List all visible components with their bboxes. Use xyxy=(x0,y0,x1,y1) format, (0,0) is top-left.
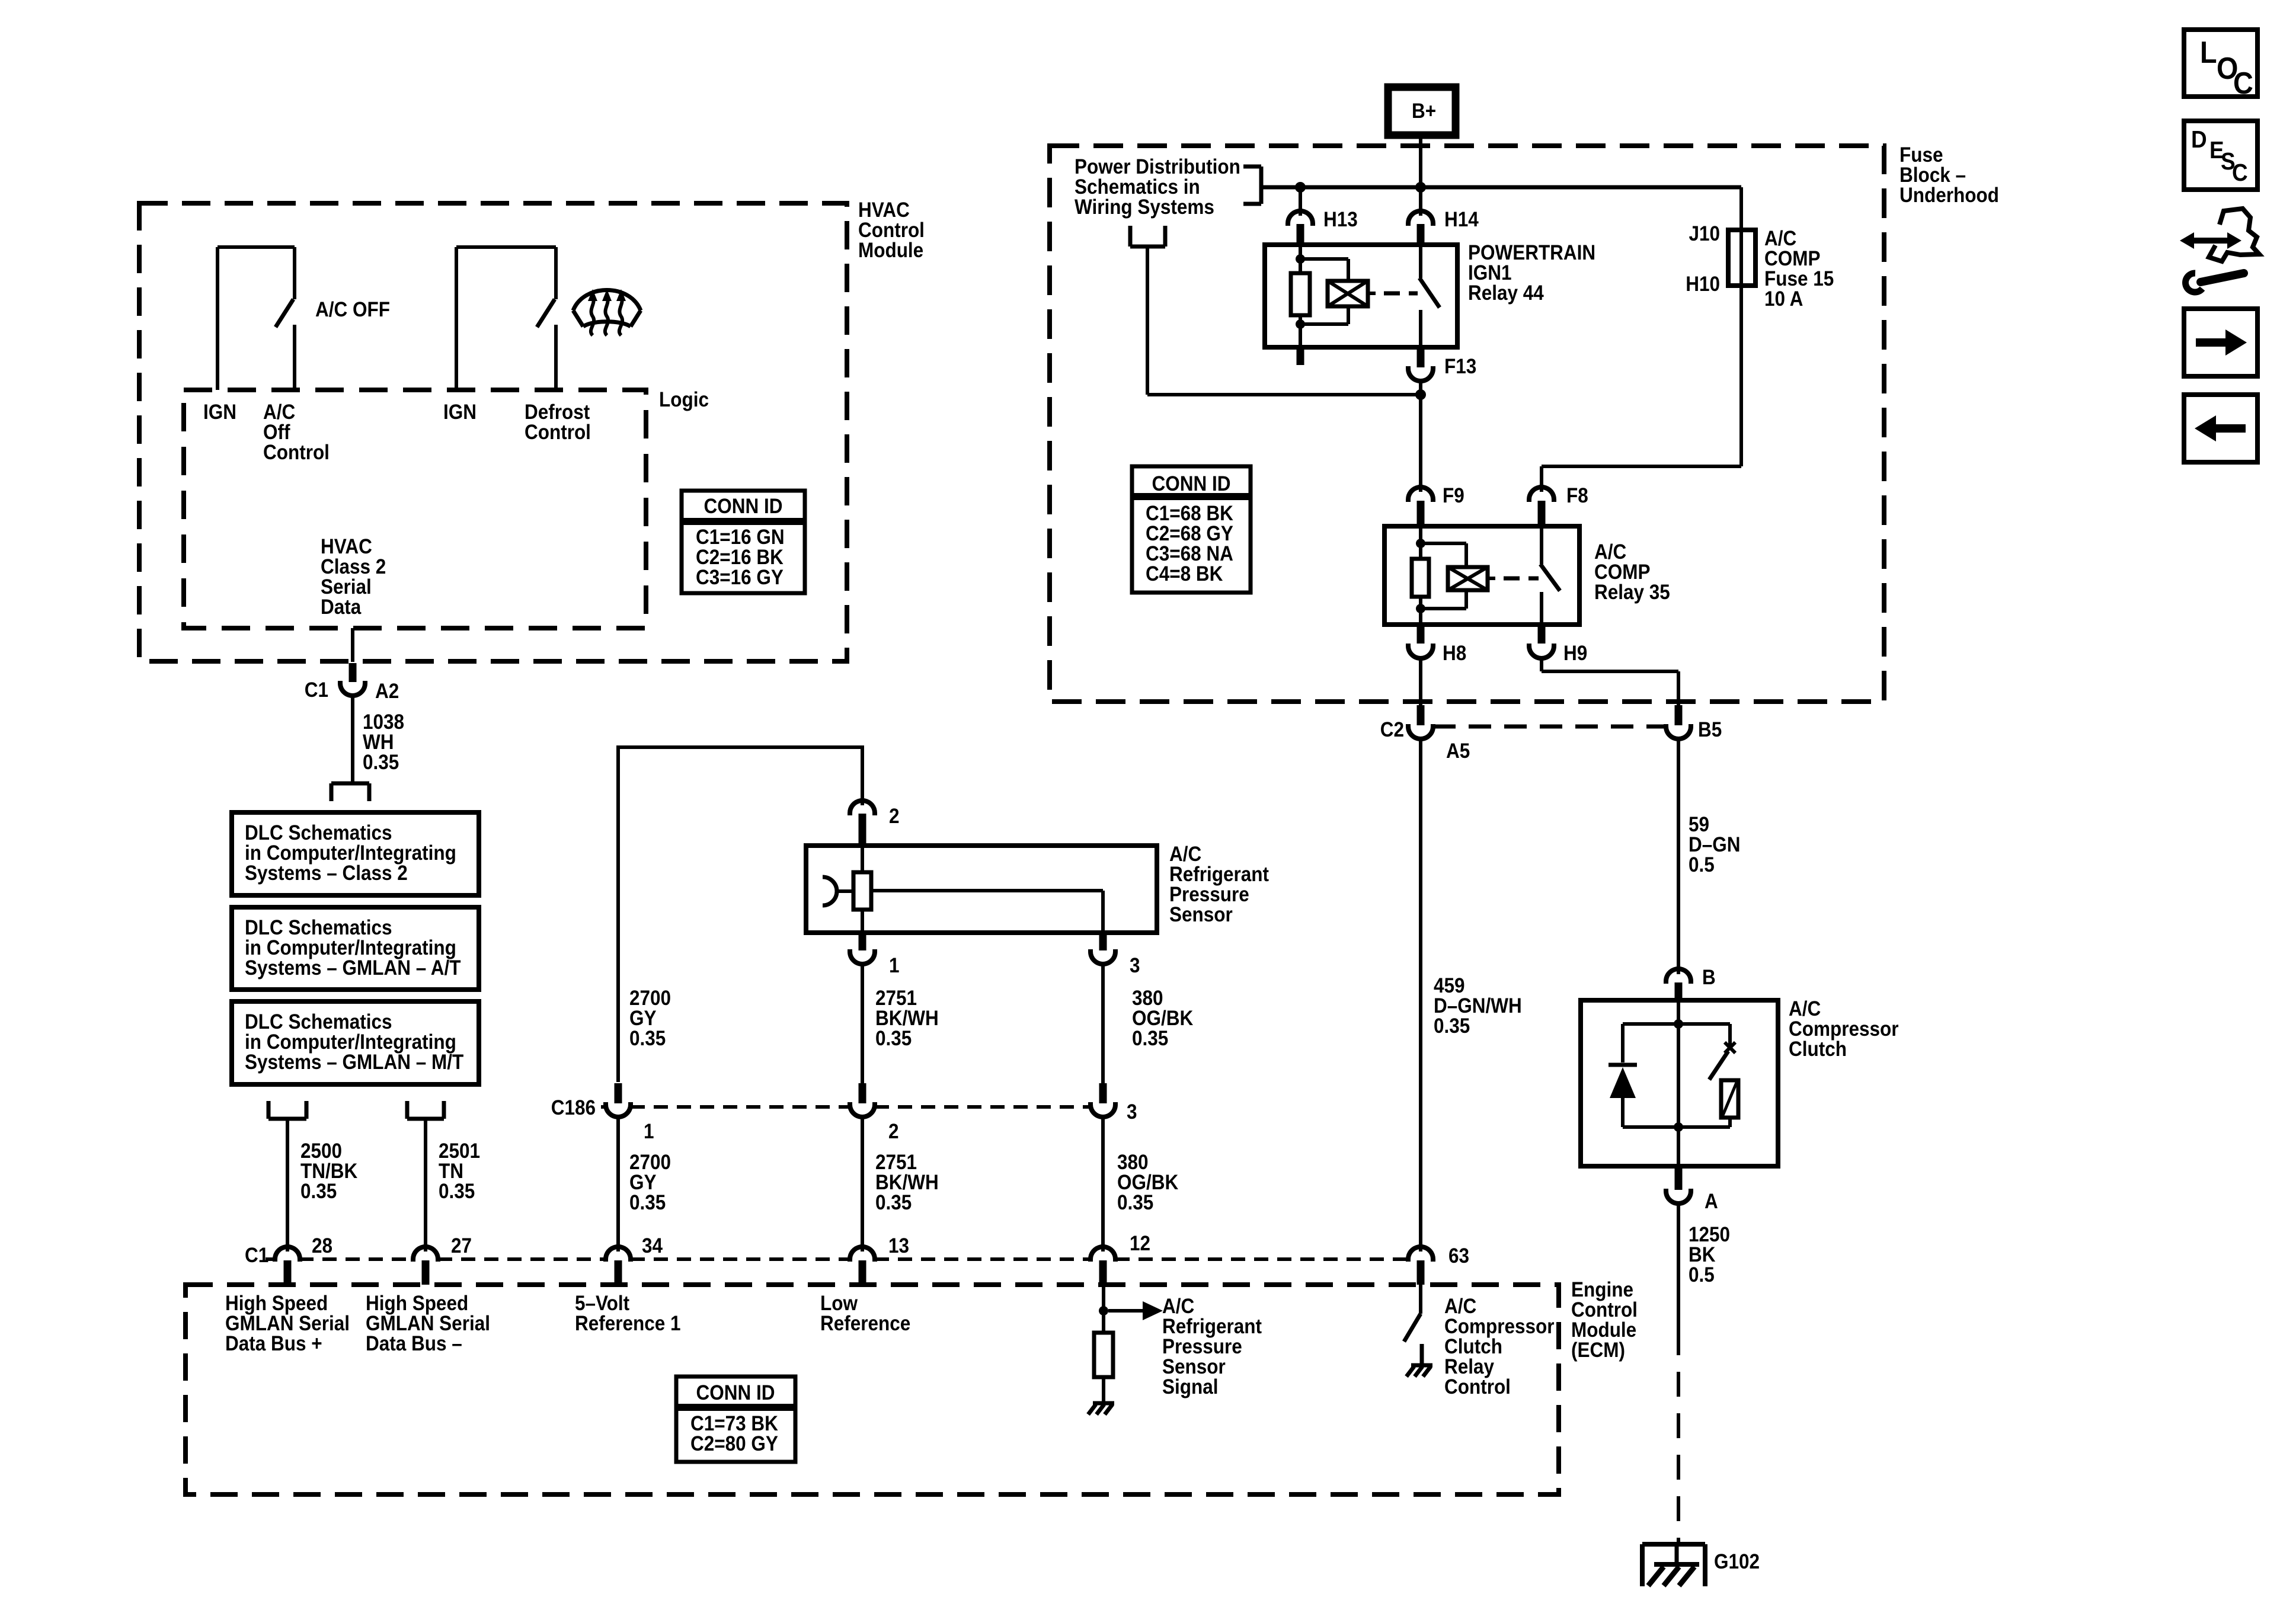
pigtail bracket bus - xyxy=(407,1101,444,1119)
relay K44 unused coil stub xyxy=(1297,347,1304,365)
label POWERTRAIN IGN1 Relay 44 xyxy=(1468,242,1595,305)
label 1250 BK 0.5 xyxy=(1689,1224,1730,1287)
connector B5 xyxy=(1666,705,1691,739)
svg-text:A: A xyxy=(1705,1190,1718,1214)
wire power-dist reference xyxy=(1147,247,1421,395)
DLC Schematics box GMLAN A/T xyxy=(232,907,479,990)
label pin 2 xyxy=(889,805,900,828)
label H13 xyxy=(1323,209,1358,232)
svg-text:Underhood: Underhood xyxy=(1900,184,1999,207)
svg-text:IGN: IGN xyxy=(203,401,236,424)
svg-text:Systems – GMLAN – A/T: Systems – GMLAN – A/T xyxy=(245,957,461,980)
label A/C Off Control xyxy=(263,401,330,465)
svg-text:H8: H8 xyxy=(1443,642,1466,665)
label H9 xyxy=(1563,642,1587,665)
relay K35 coil xyxy=(1448,567,1488,590)
clutch coil branch wires xyxy=(1623,1024,1730,1127)
relay K44 coil xyxy=(1328,281,1368,306)
CONN ID table (HVAC) xyxy=(682,491,805,593)
sensor port symbol xyxy=(823,877,853,905)
HVAC Control Module label xyxy=(858,199,925,263)
connector H8 xyxy=(1408,625,1433,658)
svg-text:0.35: 0.35 xyxy=(439,1180,475,1204)
svg-text:C4=8 BK: C4=8 BK xyxy=(1146,563,1223,586)
svg-text:Module: Module xyxy=(858,239,923,263)
label pin 28 xyxy=(312,1235,332,1258)
label pin 12 xyxy=(1130,1233,1150,1256)
label A5 xyxy=(1446,740,1470,763)
label A/C Compressor Clutch Relay Control xyxy=(1444,1295,1555,1399)
CONN ID table (fuse block) xyxy=(1132,466,1251,593)
connector pin B (clutch) xyxy=(1666,969,1691,1000)
svg-text:Sensor: Sensor xyxy=(1169,904,1233,927)
connector C186 pin 3 xyxy=(1091,1083,1115,1117)
label F8 xyxy=(1566,485,1588,508)
switch S2 Defrost xyxy=(456,247,556,390)
label A2 xyxy=(375,680,399,703)
label pin A xyxy=(1705,1190,1718,1214)
label High Speed GMLAN Serial Data Bus - xyxy=(366,1292,490,1356)
label pin 63 xyxy=(1448,1245,1469,1268)
node A/C pressure signal junction xyxy=(1099,1285,1108,1333)
connector H14 xyxy=(1408,211,1433,245)
svg-text:C: C xyxy=(2232,159,2248,186)
label C2 xyxy=(1380,719,1404,742)
label pin 13 xyxy=(888,1235,909,1258)
label 2751 BK/WH 0.35 upper xyxy=(875,987,939,1051)
label A/C COMP Fuse 15 10 A xyxy=(1764,228,1834,311)
label C186 pin 1 xyxy=(644,1121,654,1144)
svg-text:Data Bus –: Data Bus – xyxy=(366,1333,462,1356)
label H14 xyxy=(1444,209,1479,232)
label F13 xyxy=(1444,356,1476,379)
clutch thermal switch xyxy=(1709,1042,1735,1080)
connector pin 1 (sensor) xyxy=(850,933,875,964)
wire 459 D-GN/WH xyxy=(1419,739,1422,1251)
svg-text:C1: C1 xyxy=(305,679,328,702)
connector ECM pin 34 xyxy=(606,1247,631,1285)
svg-text:Logic: Logic xyxy=(659,389,709,412)
connector C1/A2 (HVAC) xyxy=(340,663,365,696)
note bracket right xyxy=(1243,167,1261,204)
svg-text:J10: J10 xyxy=(1689,223,1720,246)
junction dot B+ bus xyxy=(1415,182,1426,193)
svg-text:CONN ID: CONN ID xyxy=(704,495,783,518)
power bus wire xyxy=(1261,185,1741,190)
svg-text:H10: H10 xyxy=(1686,273,1720,296)
label IGN (S2) xyxy=(443,401,477,424)
pigtail bracket to DLC xyxy=(331,783,369,801)
svg-text:C1: C1 xyxy=(245,1244,268,1267)
svg-text:0.35: 0.35 xyxy=(629,1028,666,1051)
wire sensor top bar xyxy=(618,745,862,805)
label IGN (S1) xyxy=(203,401,236,424)
svg-text:C: C xyxy=(2233,66,2253,101)
Logic box (dashed) xyxy=(184,390,646,628)
label C186 pin 3 xyxy=(1127,1101,1137,1124)
connector F9 xyxy=(1408,487,1433,526)
connector pin 3 (sensor) xyxy=(1091,933,1115,964)
switch A/C compressor clutch relay driver xyxy=(1404,1285,1421,1342)
label F9 xyxy=(1443,485,1464,508)
svg-text:L: L xyxy=(2200,36,2217,70)
label A/C OFF xyxy=(315,299,390,322)
svg-text:Systems – GMLAN – M/T: Systems – GMLAN – M/T xyxy=(245,1051,463,1074)
svg-text:0.35: 0.35 xyxy=(300,1180,337,1204)
relay K35 coil loop xyxy=(1416,543,1466,625)
icon LOC box xyxy=(2184,30,2257,101)
svg-text:Wiring Systems: Wiring Systems xyxy=(1075,196,1214,219)
svg-text:27: 27 xyxy=(451,1235,472,1258)
wire 2501 TN xyxy=(424,1119,427,1251)
svg-text:C2: C2 xyxy=(1380,719,1404,742)
svg-text:Systems – Class 2: Systems – Class 2 xyxy=(245,862,408,885)
svg-text:A/C OFF: A/C OFF xyxy=(315,299,390,322)
relay K44 coil feed xyxy=(1296,245,1305,273)
junction dot F13/F9 xyxy=(1415,389,1426,400)
svg-text:Relay 35: Relay 35 xyxy=(1594,581,1670,604)
label pin 1 xyxy=(889,955,900,978)
connector F8 xyxy=(1529,487,1554,526)
svg-text:0.35: 0.35 xyxy=(1434,1015,1470,1038)
label pin 34 xyxy=(642,1235,663,1258)
svg-text:CONN ID: CONN ID xyxy=(696,1382,775,1405)
label C1 (ECM) xyxy=(245,1244,268,1267)
switch S1 A/C OFF xyxy=(218,247,295,390)
label 59 D-GN 0.5 xyxy=(1689,814,1740,877)
Fuse Block - Underhood box (dashed) xyxy=(1050,146,1884,702)
label 459 D-GN/WH 0.35 xyxy=(1434,975,1522,1038)
wire H8 to C2 xyxy=(1419,658,1422,705)
svg-text:1: 1 xyxy=(644,1121,654,1144)
svg-text:A5: A5 xyxy=(1446,740,1470,763)
label C186 xyxy=(551,1097,596,1120)
label HVAC Class 2 Serial Data xyxy=(321,536,386,619)
wire F13 to F9 xyxy=(1419,381,1422,492)
svg-text:CONN ID: CONN ID xyxy=(1152,473,1231,496)
ECM connector line C1 (dashed) xyxy=(266,1257,1408,1261)
label A/C COMP Relay 35 xyxy=(1594,541,1670,604)
wire 1038 WH xyxy=(351,696,354,782)
svg-text:0.35: 0.35 xyxy=(629,1192,666,1215)
label Fuse Block - Underhood xyxy=(1900,144,1999,207)
thermistor (clutch coil) xyxy=(1721,1080,1738,1118)
relay K44 box (POWERTRAIN IGN1) xyxy=(1265,245,1457,347)
connector pin 2 (sensor) xyxy=(850,801,875,846)
svg-text:C2=80 GY: C2=80 GY xyxy=(690,1433,778,1456)
svg-text:A2: A2 xyxy=(375,680,399,703)
svg-text:2: 2 xyxy=(889,805,900,828)
icon forward arrow box xyxy=(2184,309,2257,376)
svg-text:0.35: 0.35 xyxy=(363,751,399,774)
svg-text:D: D xyxy=(2191,126,2207,153)
wire HVAC serial data out xyxy=(351,628,354,662)
label pin 3 xyxy=(1130,955,1140,978)
sensor transducer element xyxy=(853,846,871,933)
ground (ECM internal, pin 63) xyxy=(1406,1344,1432,1377)
label pin B xyxy=(1702,966,1716,990)
resistor (ECM pull-down) xyxy=(1094,1333,1113,1402)
svg-text:C186: C186 xyxy=(551,1097,596,1120)
Engine Control Module box (dashed) xyxy=(186,1285,1559,1494)
svg-text:B: B xyxy=(1702,966,1716,990)
label Low Reference xyxy=(820,1292,910,1336)
label Defrost Control xyxy=(525,401,591,444)
svg-text:F13: F13 xyxy=(1444,356,1476,379)
label 1038 WH 0.35 xyxy=(363,711,404,774)
wire 1250 BK to G102 (dashed) xyxy=(1677,1330,1680,1544)
label A/C Compressor Clutch xyxy=(1789,998,1899,1061)
icon DESC box xyxy=(2184,121,2257,190)
icon back arrow box xyxy=(2184,395,2257,462)
wire 2751 BK/WH upper xyxy=(861,964,864,1083)
A/C Refrigerant Pressure Sensor box xyxy=(806,846,1157,933)
sensor output wire xyxy=(871,891,1103,933)
svg-text:0.5: 0.5 xyxy=(1689,854,1715,877)
relay K35 coil feed xyxy=(1416,526,1425,559)
svg-text:C3=16 GY: C3=16 GY xyxy=(696,566,784,590)
svg-text:0.5: 0.5 xyxy=(1689,1264,1715,1287)
label 380 OG/BK 0.35 upper xyxy=(1132,987,1193,1051)
svg-text:0.35: 0.35 xyxy=(1117,1192,1153,1215)
svg-text:13: 13 xyxy=(888,1235,909,1258)
svg-text:Reference: Reference xyxy=(820,1313,910,1336)
connector ECM pin 13 xyxy=(850,1247,875,1285)
CONN ID table (ECM) xyxy=(676,1377,795,1462)
wire 2751 BK/WH lower xyxy=(861,1117,864,1251)
resistor (K44 coil suppression) xyxy=(1291,273,1310,315)
relay K44 actuating link xyxy=(1368,292,1418,295)
wire 59 D-GN xyxy=(1677,739,1680,974)
svg-text:Control: Control xyxy=(525,421,591,444)
svg-text:Clutch: Clutch xyxy=(1789,1038,1847,1061)
svg-text:IGN: IGN xyxy=(443,401,477,424)
svg-text:Relay 44: Relay 44 xyxy=(1468,282,1544,305)
svg-text:Data: Data xyxy=(321,596,362,619)
connector ECM pin 12 xyxy=(1091,1247,1115,1285)
svg-text:Control: Control xyxy=(263,441,330,465)
icon schematic/wrench xyxy=(2180,209,2259,292)
label 2751 BK/WH 0.35 lower xyxy=(875,1151,939,1215)
svg-text:Signal: Signal xyxy=(1162,1376,1218,1399)
svg-text:3: 3 xyxy=(1130,955,1140,978)
label J10 xyxy=(1689,223,1720,246)
label C186 pin 2 xyxy=(888,1121,899,1144)
fuse F15 feed wire xyxy=(1739,187,1743,230)
label H10 xyxy=(1686,273,1720,296)
label 2700 GY 0.35 lower xyxy=(629,1151,671,1215)
connector H13 xyxy=(1288,211,1313,245)
wire B+ feed xyxy=(1419,135,1422,216)
wire fuse to F8 xyxy=(1542,286,1741,492)
label 380 OG/BK 0.35 lower xyxy=(1117,1151,1178,1215)
junction dot H13 bus xyxy=(1295,182,1306,193)
label 2700 GY 0.35 upper xyxy=(629,987,671,1051)
svg-text:0.35: 0.35 xyxy=(875,1028,912,1051)
wire 1250 BK xyxy=(1677,1204,1680,1330)
label Engine Control Module (ECM) xyxy=(1571,1279,1638,1362)
connector F13 xyxy=(1408,348,1433,381)
wire H9 to B5 xyxy=(1542,658,1678,705)
svg-text:F9: F9 xyxy=(1443,485,1464,508)
svg-text:63: 63 xyxy=(1448,1245,1469,1268)
A/C Compressor Clutch box xyxy=(1581,1000,1778,1166)
label A/C Refrigerant Pressure Sensor xyxy=(1169,843,1269,927)
wire H13 drop xyxy=(1299,187,1302,216)
svg-text:0.35: 0.35 xyxy=(875,1192,912,1215)
svg-text:H9: H9 xyxy=(1563,642,1587,665)
svg-text:34: 34 xyxy=(642,1235,663,1258)
connector C186 pin 2 xyxy=(850,1083,875,1117)
ground (ECM internal, pin 12) xyxy=(1088,1403,1114,1414)
label Power Distribution note xyxy=(1075,156,1240,219)
svg-text:Reference 1: Reference 1 xyxy=(575,1313,681,1336)
svg-text:H13: H13 xyxy=(1323,209,1358,232)
relay K35 box (A/C COMP) xyxy=(1384,526,1579,625)
label 2500 TN/BK 0.35 xyxy=(300,1140,357,1204)
label C1 (HVAC) xyxy=(305,679,328,702)
relay K35 switch xyxy=(1540,526,1560,625)
B+ terminal xyxy=(1388,87,1456,135)
label 2501 TN 0.35 xyxy=(439,1140,480,1204)
C2-B5 connector line (dashed) xyxy=(1433,725,1666,729)
label 5-Volt Reference 1 xyxy=(575,1292,681,1336)
clutch center wire xyxy=(1674,1000,1683,1166)
HVAC Control Module box (dashed) xyxy=(139,203,847,661)
svg-text:F8: F8 xyxy=(1566,485,1588,508)
wire 380 OG/BK lower xyxy=(1101,1117,1105,1251)
signal arrow xyxy=(1108,1301,1163,1320)
svg-text:B5: B5 xyxy=(1698,719,1722,742)
connector C2/A5 xyxy=(1408,705,1433,739)
svg-text:Data Bus +: Data Bus + xyxy=(225,1333,322,1356)
diode (clutch suppression) xyxy=(1609,1065,1637,1098)
relay K44 coil loop xyxy=(1296,259,1348,347)
svg-text:3: 3 xyxy=(1127,1101,1137,1124)
wire 380 OG/BK upper xyxy=(1101,964,1105,1083)
fuse F15 (A/C COMP 10A) xyxy=(1728,230,1755,286)
wire 2700 GY upper xyxy=(616,745,620,1082)
relay K44 switch xyxy=(1419,245,1440,347)
wire 2500 TN/BK xyxy=(286,1119,289,1251)
defrost indicator icon xyxy=(573,289,641,335)
DLC Schematics box Class 2 xyxy=(232,812,479,895)
svg-text:12: 12 xyxy=(1130,1233,1150,1256)
DLC Schematics box GMLAN M/T xyxy=(232,1001,479,1084)
connector pin A (clutch) xyxy=(1666,1166,1691,1204)
C186 connector line (dashed) xyxy=(601,1105,1091,1109)
svg-text:28: 28 xyxy=(312,1235,332,1258)
wire 2700 GY lower xyxy=(616,1117,620,1251)
svg-text:1: 1 xyxy=(889,955,900,978)
svg-text:H14: H14 xyxy=(1444,209,1479,232)
label H8 xyxy=(1443,642,1466,665)
svg-text:G102: G102 xyxy=(1714,1551,1760,1574)
connector H9 xyxy=(1529,625,1554,658)
resistor (K35 coil suppression) xyxy=(1412,559,1429,597)
svg-text:0.35: 0.35 xyxy=(1132,1028,1168,1051)
relay K35 actuating link xyxy=(1488,577,1539,580)
label A/C Refrigerant Pressure Sensor Signal xyxy=(1162,1295,1262,1399)
connector ECM pin 28 xyxy=(275,1247,300,1285)
label B5 xyxy=(1698,719,1722,742)
pigtail bracket bus + xyxy=(268,1101,306,1119)
connector C186 pin 1 xyxy=(606,1083,631,1117)
svg-text:B+: B+ xyxy=(1412,100,1436,123)
label G102 xyxy=(1714,1551,1760,1574)
label pin 27 xyxy=(451,1235,472,1258)
note bracket down xyxy=(1130,226,1165,247)
connector ECM pin 63 xyxy=(1408,1247,1433,1285)
svg-text:10 A: 10 A xyxy=(1764,288,1803,311)
label Logic xyxy=(659,389,709,412)
svg-text:Control: Control xyxy=(1444,1376,1511,1399)
ground G102 xyxy=(1642,1544,1705,1586)
svg-text:(ECM): (ECM) xyxy=(1571,1339,1625,1362)
label High Speed GMLAN Serial Data Bus + xyxy=(225,1292,350,1356)
svg-text:2: 2 xyxy=(888,1121,899,1144)
connector ECM pin 27 xyxy=(413,1247,438,1285)
